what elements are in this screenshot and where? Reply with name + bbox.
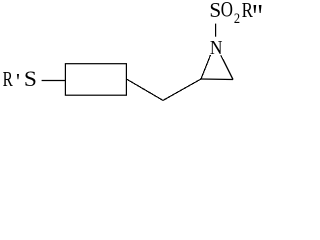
svg-text:S: S <box>24 66 37 91</box>
svg-text:S: S <box>209 0 221 22</box>
CH2 chain bond up <box>163 79 201 100</box>
svg-text:O: O <box>221 0 233 21</box>
aziridine C-N left bond <box>201 55 211 79</box>
svg-text:R: R <box>3 67 14 91</box>
ring system box <box>65 64 126 95</box>
label SO2R doubleprime (sulfonyl group) <box>209 0 263 35</box>
svg-text:N: N <box>210 38 223 59</box>
bond S to ring box <box>42 80 66 82</box>
svg-text:": " <box>252 0 264 35</box>
svg-text:2: 2 <box>234 11 240 27</box>
label R prime S (thioether substituent) <box>3 66 37 93</box>
aziridine C-N right bond <box>221 55 233 79</box>
aziridine C-C bottom bond <box>201 78 233 81</box>
bond N to sulfonyl S <box>215 24 217 37</box>
svg-text:': ' <box>16 68 20 93</box>
CH2 chain bond down <box>126 79 163 100</box>
